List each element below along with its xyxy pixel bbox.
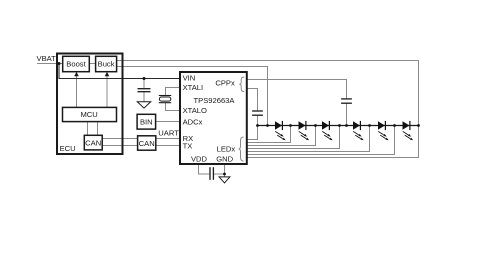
- wire MCU to CAN link B: [97, 122, 99, 136]
- node GND junction: [223, 173, 226, 176]
- ground input: [137, 102, 150, 108]
- capacitor CPP1 C2: [341, 99, 352, 103]
- wire MCU to Boost control: [76, 76, 78, 107]
- wire VBAT to VIN: [59, 64, 180, 79]
- brace CPPx: [239, 77, 244, 92]
- svg-text:XTALI: XTALI: [183, 83, 204, 92]
- wire CPP2 cap lower: [257, 115, 259, 125]
- LED D1: [275, 121, 286, 140]
- wire MCU to Buck control: [106, 76, 108, 107]
- node VBAT junction: [58, 62, 61, 65]
- wire CAN bus link B: [102, 145, 137, 147]
- wire LEDx tap 6: [247, 126, 419, 158]
- block Boost: [63, 56, 90, 71]
- wire LEDx tap 0: [247, 126, 258, 140]
- wire CPP1 cap lower: [346, 103, 348, 125]
- capacitor CPP2 C3: [252, 111, 263, 115]
- wire Buck output rail 2: [117, 67, 268, 126]
- svg-text:CPPx: CPPx: [215, 79, 235, 88]
- wire Buck output rail 1: [117, 61, 419, 126]
- svg-text:VBAT: VBAT: [37, 54, 57, 63]
- wire BIN to ADCx: [156, 121, 180, 123]
- wire XTALI: [166, 88, 181, 96]
- wire TX: [156, 145, 180, 147]
- svg-text:LEDx: LEDx: [217, 145, 236, 154]
- wire LED chain: [258, 125, 419, 127]
- svg-text:XTALO: XTALO: [183, 106, 207, 115]
- wire input cap branch: [143, 79, 145, 102]
- wire CPP2: [247, 89, 258, 111]
- svg-text:Boost: Boost: [66, 60, 86, 69]
- block MCU: [63, 107, 117, 121]
- wire RX: [156, 138, 180, 140]
- LED D6: [403, 121, 414, 140]
- crystal Y1: [159, 96, 171, 103]
- wire LEDx tap 2: [247, 126, 316, 146]
- wire LEDx tap 4: [247, 126, 370, 152]
- svg-text:TX: TX: [183, 141, 193, 150]
- node VIN cap junction: [143, 77, 146, 80]
- block ECU: [57, 54, 123, 155]
- wire CPP1: [247, 80, 347, 99]
- brace LEDx: [239, 137, 244, 161]
- wire Boost-Buck link: [89, 63, 95, 65]
- svg-text:ADCx: ADCx: [183, 118, 203, 127]
- svg-text:GND: GND: [216, 155, 233, 164]
- capacitor input C1: [138, 89, 151, 92]
- svg-text:Buck: Buck: [98, 60, 115, 69]
- wire CAN bus link A: [102, 138, 137, 140]
- wire cap to GND: [214, 173, 225, 175]
- block BIN: [137, 114, 156, 129]
- LED D4: [353, 121, 364, 140]
- svg-text:UART: UART: [158, 129, 179, 138]
- LED D5: [378, 121, 389, 140]
- arrow Boost control: [74, 72, 79, 76]
- wire GND stub: [224, 164, 226, 177]
- svg-text:CAN: CAN: [139, 139, 155, 148]
- block CAN (ECU): [84, 135, 102, 150]
- node chain junctions: [256, 124, 420, 127]
- capacitor VDD C4: [210, 167, 213, 180]
- op-amp U1 TPS92663A: [180, 72, 247, 164]
- svg-text:VDD: VDD: [191, 155, 208, 164]
- block CAN transceiver: [138, 136, 156, 150]
- block Buck: [96, 56, 117, 71]
- svg-text:ECU: ECU: [60, 144, 76, 153]
- svg-text:CAN: CAN: [85, 138, 101, 147]
- svg-text:VIN: VIN: [183, 73, 196, 82]
- wire LEDx tap 3: [247, 126, 340, 149]
- svg-text:MCU: MCU: [80, 110, 97, 119]
- arrow Buck control: [105, 72, 110, 76]
- wire LEDx tap 5: [247, 126, 395, 155]
- LED D2: [299, 121, 310, 140]
- ground GND: [219, 177, 230, 183]
- wire VDD decoupling: [199, 164, 210, 174]
- wire LEDx tap 1: [247, 126, 291, 143]
- LED D3: [322, 121, 333, 140]
- svg-text:BIN: BIN: [140, 117, 153, 126]
- wire VBAT stub: [37, 63, 63, 65]
- svg-text:TPS92663A: TPS92663A: [194, 96, 236, 105]
- wire MCU to CAN link A: [87, 122, 89, 136]
- wire XTALO: [166, 103, 181, 111]
